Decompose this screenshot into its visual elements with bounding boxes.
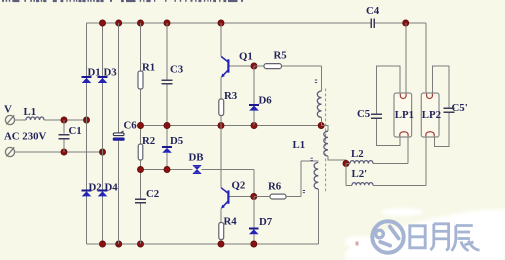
transistor Q1 xyxy=(221,23,229,99)
pin mark W3 bottom xyxy=(303,191,305,193)
svg-text:R3: R3 xyxy=(224,90,238,102)
svg-text:D2: D2 xyxy=(89,182,102,194)
svg-text:C1: C1 xyxy=(69,125,82,137)
node top rail LP1 xyxy=(403,20,409,26)
diac DB xyxy=(193,166,201,174)
svg-text:R6: R6 xyxy=(268,180,282,192)
node bottom rail C2 xyxy=(137,241,143,247)
watermark red speck xyxy=(356,242,359,246)
inductor L1 xyxy=(26,117,44,120)
svg-text:D6: D6 xyxy=(259,95,273,107)
resistor R1 xyxy=(138,23,143,144)
capacitor C4 xyxy=(371,19,374,29)
svg-text:C2: C2 xyxy=(146,188,159,200)
wire top rail xyxy=(87,22,427,24)
svg-text:C4: C4 xyxy=(366,5,380,17)
resistor R3 xyxy=(219,99,224,126)
node middle rail C3D5 xyxy=(164,122,170,128)
node Q1 base xyxy=(251,63,257,69)
node bridge AC1 xyxy=(83,117,89,123)
watermark char chen xyxy=(452,226,480,251)
pin mark W3 xyxy=(311,158,313,160)
node bottom rail C6 xyxy=(116,241,122,247)
node top rail C6 xyxy=(116,20,122,26)
node C1 bottom xyxy=(61,149,67,155)
svg-text:C5: C5 xyxy=(357,108,370,120)
node top rail R1 xyxy=(137,20,143,26)
svg-text:C6: C6 xyxy=(124,120,138,132)
transformer winding W3 xyxy=(314,163,318,245)
capacitor C5 branch xyxy=(371,66,400,146)
svg-text:D7: D7 xyxy=(259,216,273,228)
inductor L2 xyxy=(346,137,408,164)
svg-text:R4: R4 xyxy=(224,215,238,227)
diode D6 xyxy=(249,66,259,126)
lamp LP2 xyxy=(421,93,439,137)
wire top rail to LP2 xyxy=(425,23,427,93)
node bottom rail R4 xyxy=(218,241,224,247)
node base rail R2C2 xyxy=(137,166,143,172)
svg-text:LP1: LP1 xyxy=(395,109,414,121)
node top rail bridge xyxy=(99,20,105,26)
wire L1 to bridge xyxy=(44,119,87,121)
svg-text:DB: DB xyxy=(189,151,204,163)
svg-text:AC 230V: AC 230V xyxy=(4,131,46,143)
node top rail Q1 xyxy=(218,20,224,26)
svg-text:V: V xyxy=(4,104,12,116)
watermark char ri xyxy=(410,226,425,248)
capacitor C3 xyxy=(162,23,173,147)
resistor R6 xyxy=(254,161,318,199)
cropped text remnant along top edge xyxy=(2,0,243,2)
svg-text:Q1: Q1 xyxy=(239,51,253,63)
node bridge AC2 xyxy=(99,149,105,155)
node base rail D5 xyxy=(164,166,170,172)
wire bottom rail xyxy=(87,243,319,245)
diode D5 xyxy=(162,147,172,169)
wire base drive rail xyxy=(141,170,254,197)
node middle rail D6 xyxy=(251,122,257,128)
node top rail C3 xyxy=(164,20,170,26)
transformer winding W2 xyxy=(321,126,346,164)
wire input bottom xyxy=(15,151,103,153)
svg-text:L2: L2 xyxy=(351,148,364,160)
resistor R4 xyxy=(219,223,224,245)
node middle rail Q chain xyxy=(218,122,224,128)
diode D3 xyxy=(98,77,108,83)
watermark logo circle xyxy=(372,221,403,252)
wire top rail to LP1 xyxy=(405,23,407,93)
svg-text:R5: R5 xyxy=(274,50,287,62)
diode D4 xyxy=(98,191,108,197)
wire W1 bottom xyxy=(321,117,323,125)
watermark char yue xyxy=(430,224,448,250)
inductor L2' xyxy=(346,137,426,185)
node L2 tap xyxy=(343,160,349,166)
capacitor C2 xyxy=(135,199,146,244)
pin mark W1 xyxy=(315,80,317,82)
svg-text:R1: R1 xyxy=(142,62,155,74)
svg-text:D5: D5 xyxy=(170,135,183,147)
wire Q2 base xyxy=(230,196,254,198)
svg-text:LP2: LP2 xyxy=(422,109,441,121)
svg-text:L2': L2' xyxy=(352,168,368,180)
node middle rail transformer tap xyxy=(318,122,324,128)
lamp LP1 xyxy=(394,93,412,137)
svg-text:R2: R2 xyxy=(142,135,155,147)
svg-text:C3: C3 xyxy=(170,64,184,76)
wire input top to L1 xyxy=(15,119,26,121)
transformer core xyxy=(325,89,327,192)
resistor R5 xyxy=(254,64,322,91)
diode D2 xyxy=(82,191,92,197)
wire Q1 base xyxy=(230,65,255,67)
node C1 top xyxy=(61,117,67,123)
transistor Q2 xyxy=(221,126,229,223)
terminal input bottom xyxy=(5,147,14,156)
node Q2 base xyxy=(251,193,257,199)
svg-text:D4: D4 xyxy=(105,182,119,194)
wire bridge right leg xyxy=(102,23,104,244)
node bottom rail D7 xyxy=(251,241,257,247)
diode D7 xyxy=(249,197,259,245)
diode D1 xyxy=(82,77,92,83)
wire middle rail xyxy=(141,125,322,127)
terminal input top xyxy=(5,115,14,124)
capacitor C5' branch xyxy=(433,66,455,146)
capacitor C6 electrolytic xyxy=(113,23,124,244)
capacitor C1 xyxy=(59,120,70,152)
svg-text:Q2: Q2 xyxy=(232,179,246,191)
svg-text:L1: L1 xyxy=(293,139,306,151)
svg-text:L1: L1 xyxy=(24,106,37,118)
resistor R2 xyxy=(138,144,143,199)
transformer winding W1 xyxy=(317,91,321,117)
node middle rail R1R2 xyxy=(137,122,143,128)
wire bridge left leg xyxy=(86,23,88,244)
node bottom rail bridge xyxy=(99,241,105,247)
watermark white patch xyxy=(345,208,505,260)
